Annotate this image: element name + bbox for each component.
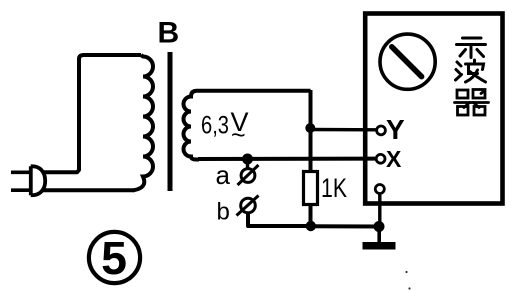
terminal a (slashed circle) (238, 165, 259, 185)
wire resistor bottom to rail (309, 205, 313, 227)
ground (363, 242, 396, 250)
wire secondary bottom to terminal X (198, 157, 376, 161)
terminal G (scope ground) (375, 185, 384, 194)
speck (scan noise) (405, 271, 407, 273)
svg-text:Y: Y (386, 114, 405, 145)
junction a node (242, 154, 253, 165)
label 示 (drawn strokes) (457, 38, 486, 58)
transformer core (168, 52, 173, 191)
wire Y node to terminal Y (311, 128, 378, 132)
resistor R 1K (304, 172, 318, 205)
oscilloscope box (365, 14, 502, 204)
wire secondary top down to resistor (through Y node) (309, 90, 313, 172)
wire plug to primary (bottom lead) (43, 188, 134, 192)
wire a stub (246, 159, 249, 169)
wire b to ground rail (248, 213, 311, 226)
wire plug to primary (top lead, up left side, top edge) (44, 55, 141, 172)
wire scope ground terminal to rail (378, 193, 381, 226)
terminal Y (377, 126, 386, 135)
transformer primary winding (133, 55, 153, 190)
label 器 (drawn strokes) (455, 90, 489, 116)
svg-text:6,3: 6,3 (201, 112, 229, 140)
wire ground stub (377, 227, 381, 243)
svg-text:1K: 1K (321, 173, 347, 203)
terminal X (376, 154, 385, 163)
svg-text:b: b (217, 199, 230, 226)
speck (scan noise) (408, 287, 410, 289)
transformer secondary winding (184, 91, 311, 160)
junction rail at ground (374, 221, 385, 232)
svg-text:a: a (216, 160, 231, 190)
svg-text:X: X (386, 146, 402, 172)
junction Y node (305, 123, 315, 133)
svg-text:B: B (157, 17, 179, 50)
dial knob (380, 34, 435, 89)
terminal b (slashed circle) (237, 196, 259, 216)
plug P (power plug) (11, 166, 45, 195)
junction rail at resistor (306, 221, 316, 231)
svg-text:5: 5 (101, 232, 127, 284)
svg-text:~: ~ (231, 122, 246, 150)
wire ground rail (311, 224, 379, 228)
label 波 (drawn strokes) (456, 60, 486, 82)
figure number 5 (circled) (89, 232, 140, 283)
